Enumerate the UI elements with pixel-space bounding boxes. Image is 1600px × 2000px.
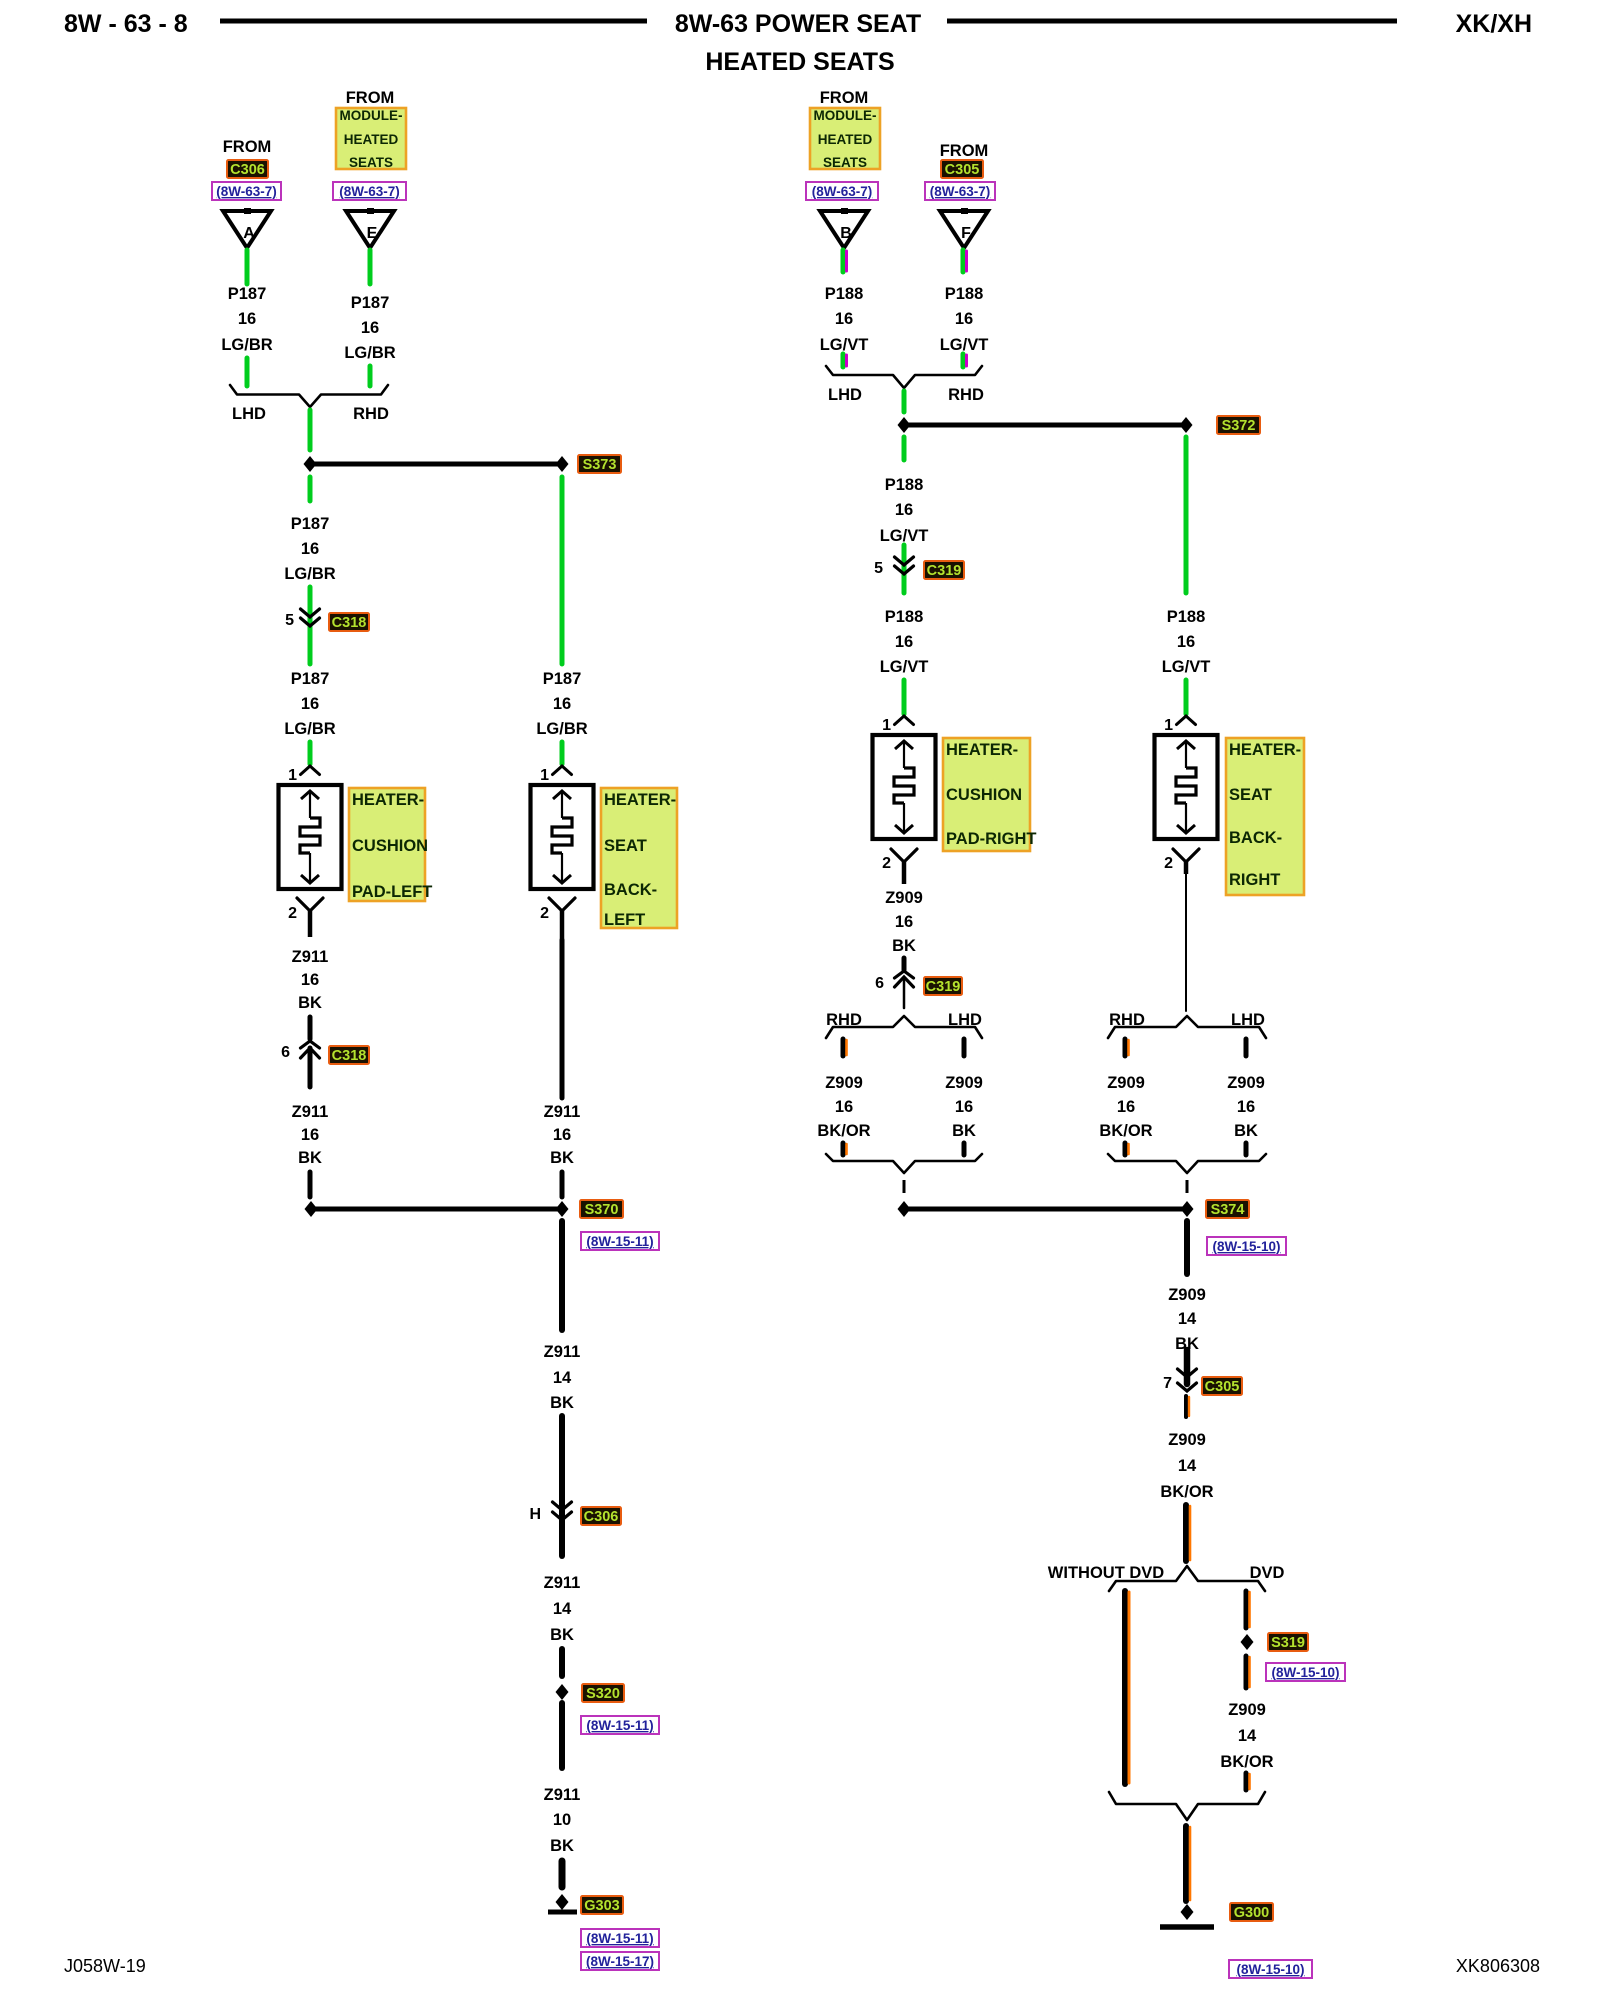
svg-text:C319: C319 [926,979,961,995]
pin 2 connector (seat back left) [549,898,575,940]
wire label Z911 10 BK [544,1786,581,1855]
pin 5 label (C319) [874,560,883,577]
wire splice S373 crossbar [310,462,562,467]
header: subtitle HEATED SEATS [705,48,894,76]
RHD/LHD merge brace (seat back right) [1108,1154,1266,1173]
wire P187 stub above brace (col E) [368,366,373,386]
connector label C319 (pin5) [924,561,964,579]
wire Z909 RHD stub (BK/OR) [843,1039,847,1056]
svg-text:LG/VT: LG/VT [940,336,989,354]
heater element HEATER-CUSHION PAD-LEFT [279,785,342,889]
splice S374 junction left node [898,1201,911,1217]
svg-text:LG/BR: LG/BR [221,336,272,354]
splice S320 [556,1684,569,1700]
svg-text:HEATER-: HEATER- [604,791,676,809]
splice label S372 [1217,416,1260,434]
svg-text:(8W-15-11): (8W-15-11) [586,1234,653,1249]
svg-text:LG/BR: LG/BR [344,344,395,362]
off-page connector B [820,208,868,248]
svg-text:RIGHT: RIGHT [1229,871,1280,889]
svg-text:16: 16 [895,913,913,931]
wire label P187 16 LG/BR (above heater cushion left) [284,670,335,738]
wire label P188 16 LG/VT (seat back right) [1162,608,1211,676]
wire P188 into heater cushion right [902,680,907,714]
splice label S373 [578,455,621,473]
wire P188 stub above brace (col B) [843,354,847,367]
svg-text:LG/VT: LG/VT [880,527,929,545]
svg-text:LG/BR: LG/BR [284,720,335,738]
wire Z911 below C318 pin6 [308,1048,313,1087]
svg-text:Z911: Z911 [544,1574,581,1592]
wire label Z911 16 BK (below cushion left) [292,948,329,1012]
splice S374 junction right node [1181,1201,1194,1217]
connector label C305 (source) [941,160,983,178]
wire P188 stub above brace (col F) [963,354,967,367]
pin H label (C306) [529,1506,541,1523]
wire label P187 16 LG/BR (seat back left) [536,670,587,738]
svg-text:1: 1 [882,717,891,734]
wire label P188 16 LG/VT (above heater cushion right) [880,608,929,676]
svg-text:E: E [367,225,378,242]
pin 1 socket (heater cushion right) [895,716,914,725]
svg-text:(8W-15-11): (8W-15-11) [586,1718,653,1733]
ground G303 [548,1894,577,1912]
svg-text:SEAT: SEAT [1229,786,1272,804]
svg-text:DVD: DVD [1250,1564,1285,1582]
svg-text:16: 16 [895,501,913,519]
svg-text:MODULE-: MODULE- [814,108,877,123]
hyperlink (8W-15-17) under G303 [581,1952,659,1970]
off-page connector E [346,208,394,248]
svg-text:16: 16 [301,971,319,989]
pin 2 label (seat back right) [1164,855,1173,872]
svg-text:16: 16 [301,1126,319,1144]
wire P187 long (seat back left) [560,477,565,664]
svg-text:(8W-15-10): (8W-15-10) [1237,1962,1305,1977]
wire Z909 RHD stub 2 (BK/OR, seat back) [1125,1143,1129,1155]
splice label S370 [580,1200,623,1218]
wire label P188 16 LG/VT (col B) [820,285,869,354]
heater element HEATER-SEAT BACK-RIGHT [1155,735,1218,839]
hyperlink (8W-15-10) under S319 [1266,1663,1345,1681]
footer sheet code J058W-19 [64,1956,146,1976]
pin 1 socket (seat back right) [1177,716,1196,725]
svg-text:16: 16 [361,319,379,337]
svg-text:BK: BK [550,1394,574,1412]
svg-text:(8W-15-17): (8W-15-17) [586,1954,654,1969]
svg-text:16: 16 [301,695,319,713]
wire Z909 below C305 [1186,1396,1189,1417]
in-line connector C306 pin H (double chevron) [553,1502,572,1520]
wire Z909 into C305 pin7 [1184,1350,1191,1384]
pin 2 label (heater cushion left) [288,905,297,922]
svg-text:16: 16 [553,695,571,713]
svg-text:LG/VT: LG/VT [1162,658,1211,676]
label LHD (left) [232,405,266,423]
splice S370 junction left node [305,1201,318,1217]
svg-text:RHD: RHD [948,386,984,404]
hyperlink (8W-15-10) under S374 [1207,1237,1286,1255]
pin 6 label (C318) [281,1044,290,1061]
label WITHOUT DVD [1048,1564,1164,1582]
connector label C318 (pin5) [329,613,369,631]
svg-text:BK: BK [1234,1122,1258,1140]
svg-text:WITHOUT DVD: WITHOUT DVD [1048,1564,1164,1582]
splice S372 junction left node [898,417,911,433]
header: model XK/XH [1456,10,1532,38]
svg-text:SEATS: SEATS [349,155,393,170]
wire P188 below S372 [902,437,907,460]
wire label Z909 16 BK/OR (RHD seat back) [1099,1074,1152,1140]
splice S370 junction right node [556,1201,569,1217]
svg-text:Z909: Z909 [825,1074,863,1092]
wire Z909 LHD stub 2 (BK, seat back) [1244,1143,1249,1155]
splice label S374 [1206,1200,1249,1218]
svg-text:MODULE-: MODULE- [340,108,403,123]
splice S373 junction right node [556,456,569,472]
svg-text:Z909: Z909 [1227,1074,1265,1092]
splice S372 junction right node [1180,417,1193,433]
pin 1 label (seat back right) [1164,717,1173,734]
wire label Z909 14 BK/OR (below C305) [1160,1431,1213,1501]
pin 2 connector (seat back right) [1173,849,1199,874]
svg-text:SEATS: SEATS [823,155,867,170]
wire dashed into S374 (right) [1186,1180,1189,1198]
svg-text:16: 16 [301,540,319,558]
off-page connector A [223,208,271,248]
svg-text:LHD: LHD [232,405,266,423]
svg-text:RHD: RHD [353,405,389,423]
svg-text:S319: S319 [1271,1635,1305,1651]
splice S319 [1241,1634,1254,1650]
pin 1 label (seat back left) [540,767,549,784]
svg-text:HEATED: HEATED [818,132,873,147]
pin 7 label (C305) [1163,1375,1172,1392]
wire Z911 above C318 pin6 [308,1017,313,1039]
pin 1 label (heater cushion right) [882,717,891,734]
wire Z909 to ground G300 [1186,1826,1190,1901]
pin 5 label (C318) [285,612,294,629]
wire dashed into S374 (left) [903,1180,906,1198]
LHD/RHD merge brace (right section) [826,366,982,388]
svg-text:LHD: LHD [1231,1011,1265,1029]
svg-text:P188: P188 [825,285,864,303]
wire label Z909 16 BK (LHD cushion) [945,1074,983,1140]
wire P187 below S373 [308,477,313,501]
wire label Z911 16 BK (seat back left) [544,1103,581,1167]
in-line connector C319 pin 6 (chevron + arrow) [895,971,914,987]
svg-text:G303: G303 [584,1898,619,1914]
svg-text:XK/XH: XK/XH [1456,10,1532,38]
hyperlink (8W-15-11) under G303 [581,1929,659,1947]
wire label Z909 14 BK/OR (DVD branch) [1220,1701,1273,1771]
svg-text:LG/BR: LG/BR [536,720,587,738]
svg-text:BK: BK [298,1149,322,1167]
svg-text:C306: C306 [584,1509,619,1525]
wire label Z909 16 BK (LHD seat back) [1227,1074,1265,1140]
svg-text:LHD: LHD [828,386,862,404]
svg-text:HEATED: HEATED [344,132,399,147]
wire label Z911 14 BK (below S370) [544,1343,581,1412]
label LHD (seat back right split) [1231,1011,1265,1029]
component label MODULE-HEATED SEATS (right) [810,108,880,170]
pin 1 socket (seat back left) [553,766,572,775]
wire Z909 long (without DVD branch) [1125,1591,1129,1784]
hyperlink (8W-15-10) under G300 [1229,1960,1312,1978]
connector label C306 (source) [227,160,268,178]
svg-text:H: H [529,1506,541,1523]
hyperlink (8W-63-7) under C306 [212,182,281,200]
svg-text:Z909: Z909 [1168,1286,1206,1304]
svg-text:BK/OR: BK/OR [1099,1122,1152,1140]
wire Z909 RHD stub (BK/OR, seat back) [1125,1039,1129,1056]
heater element HEATER-CUSHION PAD-RIGHT [873,735,936,839]
wire Z909 RHD stub 2 (BK/OR) [843,1143,847,1155]
svg-text:14: 14 [1178,1310,1197,1328]
in-line connector C305 pin 7 (double chevron) [1178,1369,1197,1391]
wire Z911 below S320 [559,1703,565,1768]
label RHD (right) [948,386,984,404]
svg-text:CUSHION: CUSHION [946,786,1022,804]
wire Z909 stub (DVD branch) [1246,1591,1250,1628]
pin 1 socket (heater cushion left) [301,766,320,775]
splice label S319 [1268,1633,1308,1651]
wire Z909 above DVD split [1186,1505,1190,1561]
wire Z911 stub above S370 right [560,1172,565,1197]
svg-text:5: 5 [285,612,294,629]
svg-text:HEATED SEATS: HEATED SEATS [705,48,894,76]
svg-text:FROM: FROM [346,89,395,107]
svg-text:(8W-15-11): (8W-15-11) [586,1931,653,1946]
svg-text:C319: C319 [927,563,962,579]
svg-text:C306: C306 [230,162,265,178]
svg-text:SEAT: SEAT [604,837,647,855]
svg-text:S374: S374 [1211,1202,1245,1218]
svg-text:FROM: FROM [223,138,272,156]
wire splice S374 crossbar [904,1207,1187,1212]
svg-text:Z909: Z909 [1228,1701,1266,1719]
svg-text:LG/VT: LG/VT [880,658,929,676]
svg-text:S370: S370 [585,1202,619,1218]
svg-text:1: 1 [540,767,549,784]
label RHD (left) [353,405,389,423]
svg-text:1: 1 [288,767,297,784]
hyperlink (8W-63-7) under C305 [925,182,995,200]
svg-text:C305: C305 [1205,1379,1240,1395]
hyperlink (8W-15-11) under S320 [581,1716,659,1734]
svg-text:Z911: Z911 [544,1343,581,1361]
in-line connector C318 pin 6 (chevron + arrow) [301,1041,320,1058]
svg-text:FROM: FROM [820,89,869,107]
svg-text:BK: BK [952,1122,976,1140]
svg-text:HEATER-: HEATER- [352,791,424,809]
wire P187 stub below A [245,250,250,284]
svg-text:LG/VT: LG/VT [820,336,869,354]
wire Z909 14ga below S374 [1184,1221,1190,1274]
svg-text:(8W-15-10): (8W-15-10) [1272,1665,1340,1680]
svg-text:(8W-63-7): (8W-63-7) [216,184,277,199]
svg-text:16: 16 [835,310,853,328]
wire P188 stub below F [963,250,967,272]
wire Z909 LHD stub (BK) [962,1039,967,1056]
svg-text:14: 14 [1238,1727,1257,1745]
wire P188 through C319 pin5 [902,545,907,593]
wire Z911 through C306 H [559,1416,565,1556]
svg-text:Z911: Z911 [544,1786,581,1804]
svg-text:XK806308: XK806308 [1456,1956,1540,1976]
wire P188 stub below B [843,250,847,272]
wire splice S372 crossbar [904,423,1186,428]
svg-text:BK/OR: BK/OR [817,1122,870,1140]
wire splice S370 crossbar [311,1207,562,1212]
wire Z911 14ga below S370 [559,1221,565,1330]
svg-text:BK: BK [892,937,916,955]
pin 1 label (heater cushion left) [288,767,297,784]
in-line connector C319 pin 5 (double chevron) [895,557,914,574]
svg-text:P188: P188 [885,476,924,494]
pin 2 connector (heater cushion right) [891,849,917,884]
wire label P187 16 LG/BR (col E) [344,294,395,362]
svg-text:(8W-63-7): (8W-63-7) [339,184,400,199]
svg-text:P187: P187 [351,294,390,312]
label RHD (seat back right split) [1109,1011,1145,1029]
svg-text:A: A [243,225,255,242]
svg-text:PAD-RIGHT: PAD-RIGHT [946,830,1036,848]
svg-text:LHD: LHD [948,1011,982,1029]
wire label Z909 16 BK/OR (RHD cushion) [817,1074,870,1140]
wire Z911 stub above S320 [559,1649,565,1676]
svg-text:J058W-19: J058W-19 [64,1956,146,1976]
svg-text:HEATER-: HEATER- [946,741,1018,759]
svg-text:BACK-: BACK- [1229,829,1282,847]
RHD/LHD split brace (seat back right) [1108,1016,1266,1038]
svg-text:Z909: Z909 [1107,1074,1145,1092]
connector label C306 (pin H) [581,1507,621,1525]
svg-text:16: 16 [955,310,973,328]
svg-text:BK: BK [298,994,322,1012]
svg-text:CUSHION: CUSHION [352,837,428,855]
wire label P188 16 LG/VT (col F) [940,285,989,354]
wire P187 merged (left) [308,410,313,450]
svg-text:P187: P187 [291,515,330,533]
svg-text:1: 1 [1164,717,1173,734]
svg-text:Z909: Z909 [945,1074,983,1092]
svg-text:14: 14 [1178,1457,1197,1475]
svg-text:G300: G300 [1234,1905,1269,1921]
svg-text:10: 10 [553,1811,571,1829]
svg-text:F: F [961,225,971,242]
wire P187 into heater seat back left [560,742,565,764]
wire Z909 thin (seat back right) [1185,874,1187,1011]
svg-text:16: 16 [238,310,256,328]
component label HEATER-SEAT BACK-LEFT [601,788,677,929]
svg-text:BK: BK [550,1837,574,1855]
svg-text:P188: P188 [1167,608,1206,626]
RHD/LHD merge brace (cushion right) [826,1154,982,1173]
wire P187 through C318 pin5 [308,587,313,664]
wire Z909 LHD stub 2 (BK) [962,1143,967,1155]
svg-text:B: B [840,225,852,242]
component label HEATER-CUSHION PAD-RIGHT [943,738,1036,851]
wire Z909 below S319 [1246,1656,1250,1688]
component label HEATER-CUSHION PAD-LEFT [349,788,432,901]
ground G300 [1160,1904,1214,1927]
RHD/LHD split brace (cushion right) [826,1016,982,1038]
wire Z911 stub above S370 [308,1172,313,1197]
wire label Z911 14 BK (above S320) [544,1574,581,1644]
ground label G300 [1230,1903,1273,1921]
LHD/RHD merge brace (left section) [230,385,388,407]
svg-text:16: 16 [835,1098,853,1116]
svg-text:(8W-15-10): (8W-15-10) [1213,1239,1281,1254]
svg-text:6: 6 [281,1044,290,1061]
wire label Z911 16 BK (above S370 left) [292,1103,329,1167]
svg-text:2: 2 [882,855,891,872]
svg-text:P187: P187 [228,285,267,303]
ground label G303 [581,1896,623,1914]
connector label C305 (pin 7) [1202,1377,1242,1395]
footer drawing code XK806308 [1456,1956,1540,1976]
wire P188 into heater seat back right [1184,680,1189,714]
wire Z909 stub above merge (DVD branch) [1246,1773,1250,1790]
label FROM (module heated seats right) [820,89,869,107]
wire P188 long (seat back right) [1184,437,1189,593]
wire Z911 10ga to ground [559,1861,566,1887]
header: title 8W-63 POWER SEAT [675,10,921,38]
svg-text:BK: BK [550,1626,574,1644]
svg-text:8W - 63 - 8: 8W - 63 - 8 [64,10,188,38]
label RHD (cushion right split) [826,1011,862,1029]
header rule left [220,19,647,24]
WITHOUT DVD / DVD split brace [1109,1566,1265,1591]
svg-text:C318: C318 [332,1048,367,1064]
splice label S320 [582,1684,624,1702]
wire label P187 16 LG/BR (col A) [221,285,272,354]
svg-text:HEATER-: HEATER- [1229,741,1301,759]
pin 2 label (seat back left) [540,905,549,922]
svg-text:BK: BK [550,1149,574,1167]
svg-text:Z911: Z911 [292,1103,329,1121]
off-page connector F [940,208,988,248]
wire label Z909 14 BK (below S374) [1168,1286,1206,1353]
svg-text:S373: S373 [583,457,617,473]
label FROM (connector A source) [223,138,272,156]
svg-text:16: 16 [895,633,913,651]
splice S373 junction left node [304,456,317,472]
svg-text:S372: S372 [1222,418,1256,434]
svg-text:16: 16 [1117,1098,1135,1116]
wire Z909 LHD stub (BK, seat back) [1244,1039,1249,1056]
header rule right [947,19,1397,24]
pin 6 label (C319) [875,975,884,992]
wire label Z909 16 BK (below cushion right) [885,889,923,955]
svg-text:BACK-: BACK- [604,881,657,899]
wire P187 into heater cushion left [308,742,313,764]
svg-text:Z911: Z911 [292,948,329,966]
pin 2 label (heater cushion right) [882,855,891,872]
svg-text:(8W-63-7): (8W-63-7) [930,184,991,199]
svg-text:LEFT: LEFT [604,911,645,929]
wire P188 merged (right) [902,391,907,412]
hyperlink (8W-63-7) under module (left) [333,182,406,200]
hyperlink (8W-63-7) under module (right) [806,182,878,200]
label FROM (connector F source) [940,142,989,160]
svg-text:FROM: FROM [940,142,989,160]
wire Z909 above C319 pin6 [902,958,907,970]
label LHD (right) [828,386,862,404]
svg-text:(8W-63-7): (8W-63-7) [812,184,873,199]
label LHD (cushion right split) [948,1011,982,1029]
